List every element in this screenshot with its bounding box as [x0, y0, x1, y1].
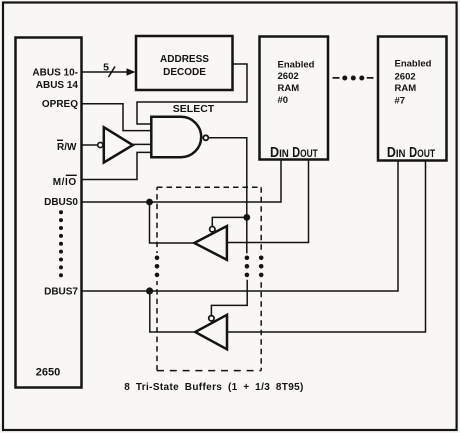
wire RAM0 DOUT to buffer 1 input [227, 160, 309, 243]
RAM #0 pin labels DIN DOUT [270, 145, 318, 161]
bus width slash [109, 67, 116, 78]
wire R/W from CPU to inverter [82, 144, 98, 146]
svg-text:OPREQ: OPREQ [42, 99, 78, 110]
ellipsis dots buffer column left [155, 255, 160, 277]
wire SELECT from address decode to NAND [137, 64, 247, 124]
erase dashes where ellipsis dots go [155, 253, 159, 281]
pin label M/IO (overline IO) [53, 175, 77, 188]
arrowhead into address decode [127, 68, 136, 75]
RAM #0 block [260, 37, 329, 160]
wire DBUS0 from CPU to RAM0 DIN [82, 160, 282, 203]
ellipsis dots buffer column right [259, 255, 264, 277]
NAND gate (select logic) [151, 117, 201, 157]
ellipsis between RAMs [333, 76, 374, 81]
tri-state buffer 1 [194, 226, 227, 260]
wire inverter output to NAND [133, 143, 151, 145]
svg-text:RAM: RAM [278, 83, 300, 94]
svg-text:8 Tri-State Buffers (1 + 1/3 8: 8 Tri-State Buffers (1 + 1/3 8T95) [124, 382, 304, 393]
wire enable to buffer 1 bubble [212, 217, 247, 226]
svg-text:5: 5 [103, 61, 109, 73]
inverter input bubble [98, 142, 103, 147]
pin label R/W (overline R) [57, 140, 77, 153]
wire buffer 2 output to DBUS7 [150, 291, 195, 332]
svg-text:DIN: DIN [387, 145, 406, 161]
svg-text:2602: 2602 [395, 71, 416, 82]
svg-text:DBUS7: DBUS7 [44, 287, 78, 298]
tri-state buffer 1 enable bubble [210, 227, 215, 232]
svg-text:DOUT: DOUT [292, 145, 318, 161]
NAND output bubble [203, 135, 208, 140]
svg-text:DECODE: DECODE [163, 67, 206, 78]
svg-text:Enabled: Enabled [395, 59, 432, 70]
svg-text:ABUS 14: ABUS 14 [36, 80, 79, 91]
wire RAM7 DOUT to buffer 2 input [227, 161, 426, 333]
CPU 2650 block [16, 38, 82, 388]
svg-text:RAM: RAM [395, 83, 417, 94]
tri-state buffer 2 enable bubble [209, 316, 214, 321]
wire DBUS7 from CPU to RAM7 DIN [82, 161, 399, 292]
wire OPREQ to NAND [82, 104, 152, 131]
svg-text:DOUT: DOUT [409, 145, 435, 161]
svg-text:DIN: DIN [270, 145, 289, 161]
inverter (R/W buffer) [104, 127, 133, 162]
svg-text:ABUS 10-: ABUS 10- [32, 68, 78, 79]
svg-text:2650: 2650 [36, 367, 60, 379]
wire buffer 1 output to DBUS0 [150, 202, 195, 243]
RAM #7 block [378, 37, 447, 161]
CPU data-bus ellipsis dots [59, 210, 63, 277]
ellipsis dots enable line [245, 255, 250, 277]
junction buffer2 output on DBUS7 [146, 287, 153, 294]
svg-text:Enabled: Enabled [278, 59, 315, 70]
svg-text:DBUS0: DBUS0 [44, 197, 78, 208]
tri-state buffer 2 [195, 315, 227, 350]
wire enable line to buffer 2 [211, 280, 247, 316]
RAM #0 label [278, 59, 315, 106]
svg-text:2602: 2602 [278, 71, 299, 82]
dashed buffer box [157, 187, 261, 370]
svg-text:#7: #7 [395, 96, 406, 107]
address decode block U-AD [136, 36, 233, 90]
RAM #7 pin labels DIN DOUT [387, 145, 435, 161]
junction buffer1 output on DBUS0 [146, 199, 153, 206]
junction enable to buffer 1 [243, 214, 250, 221]
wire ABUS bus from CPU to address decode [82, 71, 133, 73]
wire M/IO to NAND [82, 152, 152, 179]
RAM #7 label [395, 59, 432, 107]
address decode label [160, 54, 209, 78]
pin label ABUS 10- / ABUS 14 [32, 68, 78, 92]
svg-text:R/W: R/W [57, 142, 77, 153]
svg-text:#0: #0 [278, 95, 289, 106]
svg-text:SELECT: SELECT [173, 103, 215, 115]
wire NAND output enable line [208, 138, 247, 254]
svg-text:ADDRESS: ADDRESS [160, 54, 209, 65]
svg-text:M/IO: M/IO [53, 177, 77, 188]
